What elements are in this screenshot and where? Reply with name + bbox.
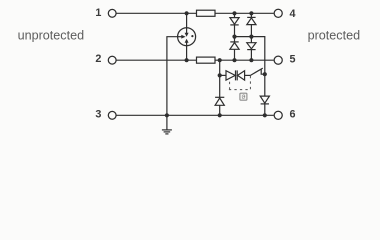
junction node row2-left column — [232, 58, 236, 62]
wire bridge right column — [250, 13, 252, 60]
switch fixed contact — [261, 69, 265, 74]
GDT left electrode — [178, 36, 182, 38]
diode D5 (left shunt, cathode up) — [215, 96, 224, 98]
junction node row2-right column — [249, 58, 253, 62]
switch arm (thermal disconnect) — [250, 68, 263, 76]
junction node row1-GDT — [185, 11, 189, 15]
terminal circle 1 — [108, 9, 116, 17]
wire row 1 (terminal 1 to terminal 4) — [117, 12, 274, 14]
resistor R2 on row 2 — [197, 57, 216, 63]
junction node row1-right column — [249, 11, 253, 15]
wire row 3 (terminal 3 to terminal 6) — [117, 114, 274, 116]
junction node row3-ground — [165, 113, 169, 117]
dashed mechanical linkage box — [229, 82, 231, 89]
diode D1 (top-left, cathode down) — [230, 18, 239, 25]
svg-text:3: 3 — [95, 108, 101, 120]
wire bridge left column — [234, 13, 236, 60]
svg-text:1: 1 — [95, 7, 101, 19]
svg-text:protected: protected — [308, 28, 361, 42]
GDT gas dot — [191, 35, 193, 37]
junction node row2-TVS branch — [218, 58, 222, 62]
svg-text:ϑ: ϑ — [242, 94, 246, 101]
thermal sensor theta box — [240, 93, 247, 100]
wire bridge middle rail — [235, 37, 265, 116]
ground symbol — [162, 129, 172, 131]
wire TVS branch vertical (row2 to row3) — [219, 60, 221, 115]
junction node middle rail left — [232, 35, 236, 39]
svg-text:5: 5 — [290, 54, 296, 66]
terminal circle 4 — [274, 9, 282, 17]
junction node switch output — [263, 72, 267, 76]
terminal circle 6 — [274, 111, 282, 119]
ground stem — [166, 115, 168, 129]
diode D3 (bottom-left, cathode up) — [230, 41, 238, 43]
diode D4 (bottom-right, cathode down) — [247, 43, 256, 49]
wire GDT vertical (row1 to row2) — [186, 13, 188, 60]
junction node row3-right shunt — [263, 113, 267, 117]
suppressor TVS bidirectional — [220, 74, 226, 76]
wire row 2 (terminal 2 to terminal 5) — [117, 59, 274, 61]
diode D6 (right shunt, cathode down) — [260, 96, 269, 103]
resistor R1 on row 1 — [197, 10, 216, 16]
junction node row3-left shunt — [218, 113, 222, 117]
svg-text:6: 6 — [290, 109, 296, 121]
terminal circle 2 — [108, 56, 116, 64]
svg-text:unprotected: unprotected — [18, 28, 85, 42]
svg-text:2: 2 — [95, 53, 101, 65]
junction node TVS left — [218, 73, 222, 77]
junction node middle rail right — [249, 35, 253, 39]
diode D2 (top-right, cathode up) — [247, 16, 255, 18]
gas discharge tube F1 circle — [178, 28, 196, 46]
GDT bottom electrode — [186, 42, 188, 45]
junction node row2-GDT — [185, 58, 189, 62]
wire GDT third electrode to ground rail — [167, 37, 178, 116]
svg-text:4: 4 — [290, 8, 296, 20]
terminal circle 3 — [108, 111, 116, 119]
terminal circle 5 — [274, 56, 282, 64]
junction node row1-left column — [232, 11, 236, 15]
GDT top electrode — [186, 28, 188, 33]
